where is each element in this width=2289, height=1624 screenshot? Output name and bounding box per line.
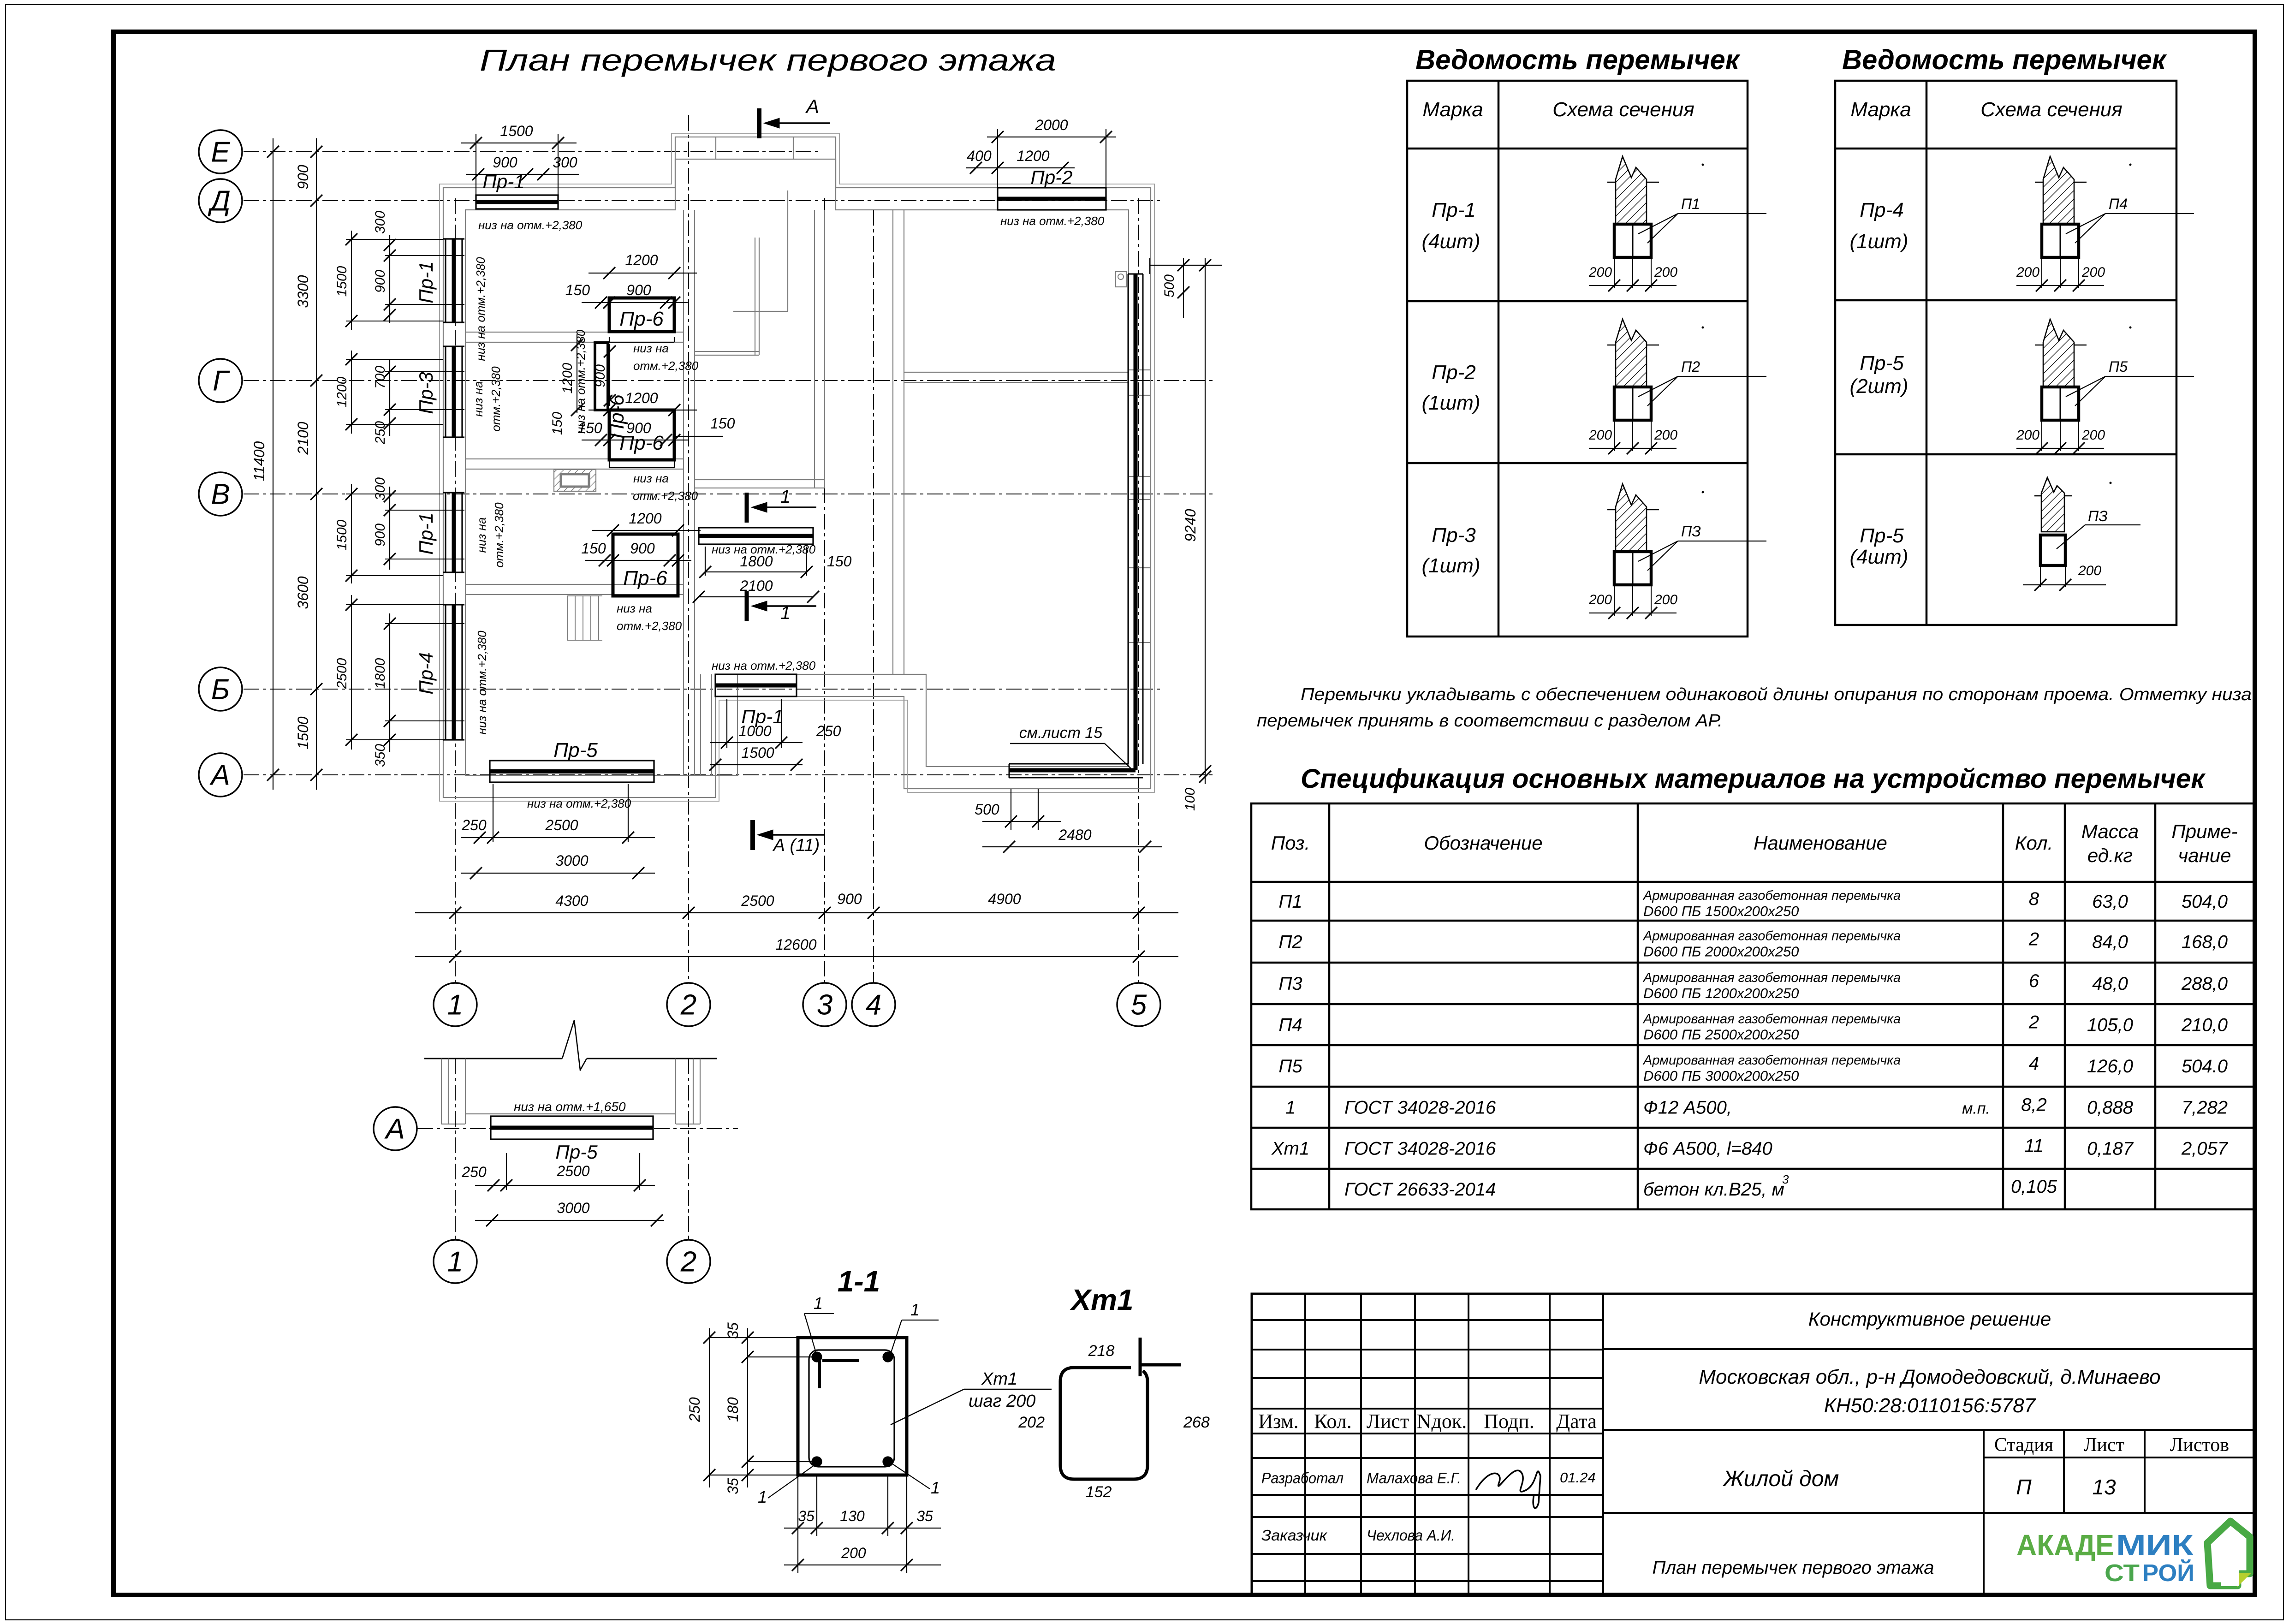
svg-text:11400: 11400 xyxy=(251,441,268,481)
svg-text:Конструктивное решение: Конструктивное решение xyxy=(1808,1308,2051,1330)
svg-text:3: 3 xyxy=(1782,1172,1789,1186)
dims window C left wall xyxy=(351,484,352,583)
svg-text:0,105: 0,105 xyxy=(2011,1177,2057,1197)
svg-text:1500: 1500 xyxy=(500,123,533,139)
svg-text:4: 4 xyxy=(866,989,881,1021)
svg-text:Малахова Е.Г.: Малахова Е.Г. xyxy=(1367,1469,1461,1487)
axis A xyxy=(244,774,1213,775)
svg-text:1-1: 1-1 xyxy=(838,1265,880,1298)
svg-text:4300: 4300 xyxy=(555,892,588,909)
svg-text:Наименование: Наименование xyxy=(1754,832,1887,854)
svg-text:1: 1 xyxy=(931,1478,940,1497)
partial plan dims xyxy=(506,1153,507,1190)
dims lintel Pr-6 first xyxy=(589,273,697,274)
svg-text:1500: 1500 xyxy=(741,744,774,761)
svg-text:Пр-1: Пр-1 xyxy=(1432,199,1475,221)
section mark A top xyxy=(757,108,761,138)
lintel Pr-6 vertical xyxy=(595,343,608,410)
axis D xyxy=(244,200,1162,201)
svg-text:1800: 1800 xyxy=(740,553,773,570)
svg-text:Армированная газобетонная пере: Армированная газобетонная перемычка xyxy=(1642,888,1901,903)
svg-text:2: 2 xyxy=(2028,1012,2039,1033)
svg-text:Ф12 А500,: Ф12 А500, xyxy=(1643,1098,1732,1118)
svg-text:504.0: 504.0 xyxy=(2182,1056,2228,1077)
svg-text:48,0: 48,0 xyxy=(2092,974,2128,994)
svg-text:РОЙ: РОЙ xyxy=(2142,1559,2194,1587)
svg-text:126,0: 126,0 xyxy=(2087,1056,2133,1077)
svg-text:35: 35 xyxy=(916,1508,933,1524)
dim chain bottom segments xyxy=(415,912,1178,913)
interior wall lower left xyxy=(465,584,684,585)
svg-text:11: 11 xyxy=(2024,1136,2044,1156)
svg-text:План перемычек первого этажа: План перемычек первого этажа xyxy=(1653,1558,1934,1578)
svg-text:0,187: 0,187 xyxy=(2087,1139,2134,1159)
section mark A(11) bottom xyxy=(750,820,755,850)
detail 1-1 stirrup xyxy=(809,1350,894,1467)
svg-text:Пр-5: Пр-5 xyxy=(555,1141,598,1163)
svg-text:Пр-5: Пр-5 xyxy=(1860,524,1904,547)
axis G xyxy=(244,380,1213,381)
svg-text:250: 250 xyxy=(816,723,841,739)
ventilation shaft hatched xyxy=(554,470,596,491)
svg-text:152: 152 xyxy=(1086,1483,1112,1501)
svg-text:см.лист 15: см.лист 15 xyxy=(1019,724,1103,742)
svg-text:200: 200 xyxy=(2081,428,2105,443)
svg-text:План перемычек первого этажа: План перемычек первого этажа xyxy=(480,43,1056,77)
lintel Pr-2 top-right xyxy=(998,188,1106,210)
svg-text:5: 5 xyxy=(1131,989,1147,1021)
svg-text:1: 1 xyxy=(910,1300,920,1319)
svg-text:В: В xyxy=(211,479,230,511)
svg-text:Б: Б xyxy=(211,674,230,706)
big corner lintel right wall xyxy=(1128,274,1129,764)
svg-text:Перемычки укладывать с обеспеч: Перемычки укладывать с обеспечением один… xyxy=(1301,685,2252,704)
svg-text:отм.+2,380: отм.+2,380 xyxy=(633,359,699,373)
svg-text:200: 200 xyxy=(1654,265,1677,280)
svg-text:400: 400 xyxy=(967,148,992,164)
svg-text:7,282: 7,282 xyxy=(2182,1098,2228,1118)
svg-text:1: 1 xyxy=(780,603,791,623)
porch side wall xyxy=(700,674,701,775)
svg-text:168,0: 168,0 xyxy=(2182,932,2228,952)
svg-text:2500: 2500 xyxy=(334,658,350,689)
svg-text:П2: П2 xyxy=(1278,932,1302,952)
dim 100 bottom right xyxy=(1199,765,1211,777)
lintel Pr-3 left wall xyxy=(445,346,446,437)
svg-text:(1шт): (1шт) xyxy=(1422,392,1480,414)
partial plan axis 2 xyxy=(688,1059,689,1240)
svg-text:Ведомость перемычек: Ведомость перемычек xyxy=(1842,44,2167,75)
svg-text:Е: Е xyxy=(211,137,230,168)
svg-text:180: 180 xyxy=(725,1397,741,1422)
detail Xt1 stirrup shape xyxy=(1139,1338,1142,1376)
lintel Pr-1 top-left xyxy=(476,195,558,209)
svg-text:2500: 2500 xyxy=(556,1163,589,1179)
partial plan cut wall top xyxy=(424,1058,562,1059)
svg-text:П5: П5 xyxy=(1278,1056,1302,1077)
svg-text:504,0: 504,0 xyxy=(2182,892,2228,912)
svg-text:отм.+2,380: отм.+2,380 xyxy=(617,619,682,633)
dim chain 12600 xyxy=(415,956,1178,957)
dims window A left wall xyxy=(351,231,352,330)
partial plan lintel Pr-5 xyxy=(491,1116,653,1139)
axis 2 xyxy=(688,115,689,983)
svg-text:Разработал: Разработал xyxy=(1261,1469,1344,1487)
svg-text:Схема сечения: Схема сечения xyxy=(1980,98,2123,121)
svg-text:Хт1: Хт1 xyxy=(1271,1139,1309,1159)
dims lintel Pr-6 second xyxy=(589,410,697,410)
svg-text:3000: 3000 xyxy=(555,852,588,869)
svg-text:1200: 1200 xyxy=(625,252,658,268)
svg-text:6: 6 xyxy=(2029,971,2039,991)
svg-text:А: А xyxy=(805,95,819,117)
svg-text:2100: 2100 xyxy=(739,577,773,594)
dim 500 top right xyxy=(1183,258,1184,318)
dims window top-left Pr-1 xyxy=(461,143,577,143)
svg-text:1800: 1800 xyxy=(373,658,388,689)
svg-text:0,888: 0,888 xyxy=(2087,1098,2134,1118)
svg-text:200: 200 xyxy=(2078,563,2101,578)
svg-text:СТ: СТ xyxy=(2105,1560,2140,1587)
svg-text:1200: 1200 xyxy=(560,363,575,393)
svg-text:200: 200 xyxy=(1654,428,1677,443)
partial plan inner lines xyxy=(465,1113,676,1114)
lintel Pr-6 third xyxy=(613,534,678,596)
svg-text:200: 200 xyxy=(1588,428,1612,443)
detail 1-1 dims bottom xyxy=(784,1528,941,1529)
svg-text:ед.кг: ед.кг xyxy=(2087,845,2133,866)
svg-text:Пр-6: Пр-6 xyxy=(623,567,667,589)
svg-text:П1: П1 xyxy=(1681,196,1700,212)
svg-text:Пр-1: Пр-1 xyxy=(415,512,437,554)
svg-text:4900: 4900 xyxy=(988,891,1021,907)
svg-text:бетон кл.В25, м: бетон кл.В25, м xyxy=(1643,1179,1784,1200)
svg-text:Подп.: Подп. xyxy=(1484,1410,1534,1433)
axis E xyxy=(244,151,821,152)
axis 1 xyxy=(455,198,456,983)
svg-text:300: 300 xyxy=(373,477,388,500)
svg-text:D600 ПБ 1500х200х250: D600 ПБ 1500х200х250 xyxy=(1643,903,1799,919)
dims lintel Pr-6 third xyxy=(592,530,701,531)
stairs xyxy=(567,596,568,640)
svg-text:А (11): А (11) xyxy=(773,836,820,855)
title block outer xyxy=(1252,1294,2254,1595)
svg-text:700: 700 xyxy=(373,366,388,389)
svg-text:Армированная газобетонная пере: Армированная газобетонная перемычка xyxy=(1642,1053,1901,1068)
dim 9240 right xyxy=(1205,258,1206,784)
svg-text:8,2: 8,2 xyxy=(2021,1095,2047,1115)
svg-text:низ на: низ на xyxy=(633,471,669,485)
svg-text:Схема сечения: Схема сечения xyxy=(1552,98,1694,121)
svg-text:Марка: Марка xyxy=(1422,98,1483,121)
svg-text:210,0: 210,0 xyxy=(2181,1015,2228,1035)
svg-text:D600 ПБ 3000х200х250: D600 ПБ 3000х200х250 xyxy=(1643,1068,1799,1084)
right wall window lower xyxy=(1129,567,1151,568)
svg-text:низ на: низ на xyxy=(475,518,488,553)
dim 2480 bottom right xyxy=(982,846,1162,847)
svg-text:200: 200 xyxy=(1654,592,1677,607)
svg-text:35: 35 xyxy=(725,1322,741,1339)
svg-text:900: 900 xyxy=(493,154,517,171)
svg-text:Чехлова А.И.: Чехлова А.И. xyxy=(1367,1527,1455,1544)
svg-text:А: А xyxy=(209,760,230,791)
svg-text:Пр-3: Пр-3 xyxy=(1432,524,1476,547)
svg-text:Обозначение: Обозначение xyxy=(1424,832,1542,854)
svg-text:1: 1 xyxy=(758,1487,767,1506)
svg-text:13: 13 xyxy=(2092,1475,2116,1499)
svg-text:Пр-6: Пр-6 xyxy=(606,394,628,439)
title block left grid xyxy=(1304,1294,1306,1595)
dim 500 bottom right xyxy=(982,821,1061,822)
svg-text:200: 200 xyxy=(1588,265,1612,280)
svg-text:35: 35 xyxy=(798,1508,815,1524)
svg-text:отм.+2,380: отм.+2,380 xyxy=(492,502,506,568)
svg-text:Д: Д xyxy=(208,185,231,217)
right wall window G xyxy=(1129,369,1151,370)
lintel Pr-1 bottom-middle xyxy=(715,674,797,696)
svg-text:Московская обл., р-н Домодедов: Московская обл., р-н Домодедовский, д.Ми… xyxy=(1699,1366,2160,1388)
svg-text:1: 1 xyxy=(814,1294,823,1313)
vedomost table 2 grid xyxy=(1835,81,2176,625)
svg-text:1: 1 xyxy=(1285,1098,1296,1118)
svg-text:Лист: Лист xyxy=(1367,1410,1409,1433)
svg-text:м.п.: м.п. xyxy=(1962,1100,1990,1118)
svg-text:низ на отм.+2,380: низ на отм.+2,380 xyxy=(474,257,488,361)
svg-text:Армированная газобетонная пере: Армированная газобетонная перемычка xyxy=(1642,929,1901,944)
svg-text:низ на: низ на xyxy=(617,601,652,615)
svg-text:250: 250 xyxy=(461,1164,487,1180)
svg-text:105,0: 105,0 xyxy=(2087,1015,2133,1035)
svg-text:900: 900 xyxy=(630,540,655,557)
specification table grid xyxy=(1251,803,2254,1209)
lintel Pr-4 left wall xyxy=(445,605,446,740)
title block right structure xyxy=(1603,1348,2254,1350)
svg-text:Армированная газобетонная пере: Армированная газобетонная перемычка xyxy=(1642,1012,1901,1027)
svg-text:150: 150 xyxy=(565,282,590,298)
svg-text:(2шт): (2шт) xyxy=(1850,375,1908,398)
svg-text:Спецификация основных материал: Спецификация основных материалов на устр… xyxy=(1301,764,2206,794)
svg-text:150: 150 xyxy=(710,415,735,432)
svg-text:Пр-6: Пр-6 xyxy=(619,308,664,330)
svg-text:1200: 1200 xyxy=(334,376,350,407)
svg-text:3: 3 xyxy=(817,989,832,1021)
detail 1-1 dim 250 left xyxy=(709,1328,710,1487)
svg-text:1: 1 xyxy=(780,487,791,507)
svg-text:ПЗ: ПЗ xyxy=(1681,523,1701,540)
svg-text:Хт1: Хт1 xyxy=(1070,1283,1133,1316)
svg-text:Изм.: Изм. xyxy=(1258,1410,1298,1433)
svg-text:чание: чание xyxy=(2178,845,2231,866)
svg-text:150: 150 xyxy=(581,540,606,557)
svg-text:шаг 200: шаг 200 xyxy=(969,1392,1035,1411)
svg-text:Армированная газобетонная пере: Армированная газобетонная перемычка xyxy=(1642,970,1901,985)
svg-text:350: 350 xyxy=(373,744,388,767)
svg-text:130: 130 xyxy=(840,1508,865,1524)
svg-text:4: 4 xyxy=(2029,1053,2039,1074)
svg-text:200: 200 xyxy=(1588,592,1612,607)
svg-text:(4шт): (4шт) xyxy=(1422,230,1480,253)
svg-text:низ на отм.+1,650: низ на отм.+1,650 xyxy=(514,1100,626,1114)
detail 1-1 dims 35-180-35 left xyxy=(747,1328,748,1487)
svg-text:Ведомость перемычек: Ведомость перемычек xyxy=(1415,44,1741,75)
svg-text:Пр-3: Пр-3 xyxy=(415,372,437,414)
entry closet partition xyxy=(787,190,788,311)
svg-text:35: 35 xyxy=(725,1478,741,1494)
svg-text:Пр-5: Пр-5 xyxy=(1860,352,1904,375)
svg-text:1: 1 xyxy=(447,989,463,1021)
svg-text:Пр-1: Пр-1 xyxy=(482,171,524,192)
svg-text:1500: 1500 xyxy=(334,519,350,550)
svg-text:Лист: Лист xyxy=(2084,1434,2124,1456)
partial plan axis A xyxy=(417,1128,738,1129)
partial plan left wall xyxy=(441,1059,442,1124)
axis 4 xyxy=(873,210,874,983)
svg-text:300: 300 xyxy=(553,154,577,171)
svg-text:Дата: Дата xyxy=(1556,1410,1597,1433)
detail 1-1 concrete outline xyxy=(798,1338,907,1475)
svg-text:300: 300 xyxy=(373,211,388,234)
svg-text:1200: 1200 xyxy=(1017,148,1049,164)
interior wall room divider upper xyxy=(465,332,684,333)
axis 3 xyxy=(824,198,825,983)
svg-text:низ на отм.+2,380: низ на отм.+2,380 xyxy=(478,218,583,232)
svg-text:низ на отм.+2,380: низ на отм.+2,380 xyxy=(527,797,631,810)
svg-text:900: 900 xyxy=(626,282,651,298)
svg-text:(1шт): (1шт) xyxy=(1422,554,1480,577)
svg-text:КН50:28:0110156:5787: КН50:28:0110156:5787 xyxy=(1824,1394,2036,1417)
svg-text:Пр-4: Пр-4 xyxy=(415,652,437,694)
svg-text:АКАДЕ: АКАДЕ xyxy=(2016,1529,2114,1562)
detail 1-1 rebar dots xyxy=(812,1352,821,1362)
svg-text:2500: 2500 xyxy=(741,892,774,909)
svg-text:А: А xyxy=(384,1113,404,1145)
interior wall axis 2 xyxy=(683,210,684,775)
svg-text:84,0: 84,0 xyxy=(2092,932,2128,952)
svg-text:200: 200 xyxy=(2016,428,2039,443)
svg-text:3300: 3300 xyxy=(295,275,311,308)
svg-text:150: 150 xyxy=(550,412,565,435)
svg-text:Поз.: Поз. xyxy=(1271,832,1310,854)
svg-text:П4: П4 xyxy=(2109,196,2128,212)
svg-text:П4: П4 xyxy=(1278,1015,1302,1035)
svg-text:D600 ПБ 2000х200х250: D600 ПБ 2000х200х250 xyxy=(1643,944,1799,960)
exterior finish line xyxy=(440,133,1154,801)
svg-text:Листов: Листов xyxy=(2170,1434,2229,1456)
svg-text:63,0: 63,0 xyxy=(2092,892,2128,912)
axis 5 xyxy=(1138,198,1139,983)
svg-text:500: 500 xyxy=(975,801,999,818)
partial plan right wall xyxy=(675,1059,676,1124)
svg-text:500: 500 xyxy=(1162,274,1177,297)
interior wall right room xyxy=(904,372,1129,373)
svg-text:П2: П2 xyxy=(1681,358,1700,375)
signature xyxy=(1476,1470,1540,1508)
svg-text:288,0: 288,0 xyxy=(2181,974,2228,994)
svg-text:Стадия: Стадия xyxy=(1994,1434,2053,1456)
svg-text:Пр-4: Пр-4 xyxy=(1860,199,1903,221)
svg-text:низ на: низ на xyxy=(633,341,669,355)
exterior wall outer face xyxy=(443,137,1151,797)
lintel Pr-6 second xyxy=(609,410,674,460)
section mark 1 lower xyxy=(745,591,749,621)
svg-text:1000: 1000 xyxy=(738,723,771,739)
svg-text:D600 ПБ 2500х200х250: D600 ПБ 2500х200х250 xyxy=(1643,1027,1799,1043)
svg-text:перемычек принять в соответств: перемычек принять в соответствии с разде… xyxy=(1257,711,1723,731)
svg-text:900: 900 xyxy=(593,364,608,387)
svg-text:ГОСТ 34028-2016: ГОСТ 34028-2016 xyxy=(1344,1139,1496,1159)
svg-text:Марка: Марка xyxy=(1850,98,1911,121)
axis V xyxy=(244,494,1213,494)
svg-text:2: 2 xyxy=(680,1246,696,1278)
svg-text:Приме-: Приме- xyxy=(2171,821,2237,842)
lintel Pr-1 left wall xyxy=(445,239,446,322)
axis B xyxy=(244,689,1162,690)
svg-text:900: 900 xyxy=(295,165,311,190)
svg-text:ГОСТ 26633-2014: ГОСТ 26633-2014 xyxy=(1344,1179,1496,1200)
entry door bump xyxy=(715,137,716,159)
svg-text:900: 900 xyxy=(373,523,388,547)
interior wall axis 4 xyxy=(892,210,893,674)
svg-text:1500: 1500 xyxy=(334,266,350,297)
svg-text:218: 218 xyxy=(1088,1342,1115,1360)
svg-text:П3: П3 xyxy=(1278,974,1302,994)
svg-text:Пр-5: Пр-5 xyxy=(553,739,598,761)
svg-text:1200: 1200 xyxy=(629,510,661,527)
svg-text:8: 8 xyxy=(2029,889,2039,909)
vedomost table 1 grid xyxy=(1407,81,1748,637)
svg-text:1200: 1200 xyxy=(625,390,658,406)
svg-text:отм.+2,380: отм.+2,380 xyxy=(489,366,503,432)
interior wall axis 3 xyxy=(814,210,815,488)
svg-text:9240: 9240 xyxy=(1182,509,1199,541)
svg-text:Ф6 А500, l=840: Ф6 А500, l=840 xyxy=(1643,1139,1772,1159)
svg-text:Г: Г xyxy=(213,365,230,397)
svg-text:3600: 3600 xyxy=(295,576,311,609)
svg-text:D600 ПБ 1200х200х250: D600 ПБ 1200х200х250 xyxy=(1643,985,1799,1001)
svg-text:(4шт): (4шт) xyxy=(1850,546,1908,568)
section mark 1 upper xyxy=(745,493,749,523)
svg-text:низ на отм.+2,380: низ на отм.+2,380 xyxy=(1000,214,1105,228)
svg-text:268: 268 xyxy=(1183,1414,1210,1431)
svg-text:низ на: низ на xyxy=(471,381,485,417)
dims vertical window stairs xyxy=(577,334,577,413)
svg-text:Пр-2: Пр-2 xyxy=(1030,167,1072,188)
svg-text:150: 150 xyxy=(827,553,852,570)
vent box right wall xyxy=(1116,272,1126,287)
svg-text:Nдок.: Nдок. xyxy=(1417,1410,1467,1433)
svg-text:1500: 1500 xyxy=(295,716,311,749)
svg-text:2: 2 xyxy=(680,989,696,1021)
dims window D left wall xyxy=(351,595,352,750)
svg-text:2000: 2000 xyxy=(1035,117,1068,133)
svg-text:250: 250 xyxy=(461,817,487,833)
exterior wall inner face xyxy=(465,159,1129,775)
logo house icon xyxy=(2207,1521,2250,1586)
svg-text:отм.+2,380: отм.+2,380 xyxy=(633,489,698,503)
svg-text:900: 900 xyxy=(373,270,388,293)
svg-text:2: 2 xyxy=(2028,929,2039,950)
svg-text:П: П xyxy=(2016,1475,2032,1499)
svg-text:Кол.: Кол. xyxy=(1314,1410,1352,1433)
partial plan axis 1 xyxy=(455,1059,456,1240)
svg-text:2500: 2500 xyxy=(545,817,578,833)
svg-text:202: 202 xyxy=(1018,1414,1045,1431)
window lintel witness lines left wall xyxy=(346,239,443,240)
svg-text:ПЗ: ПЗ xyxy=(2088,508,2108,524)
svg-text:ГОСТ 34028-2016: ГОСТ 34028-2016 xyxy=(1344,1098,1496,1118)
svg-text:900: 900 xyxy=(837,891,862,907)
interior wall left middle xyxy=(465,458,684,459)
